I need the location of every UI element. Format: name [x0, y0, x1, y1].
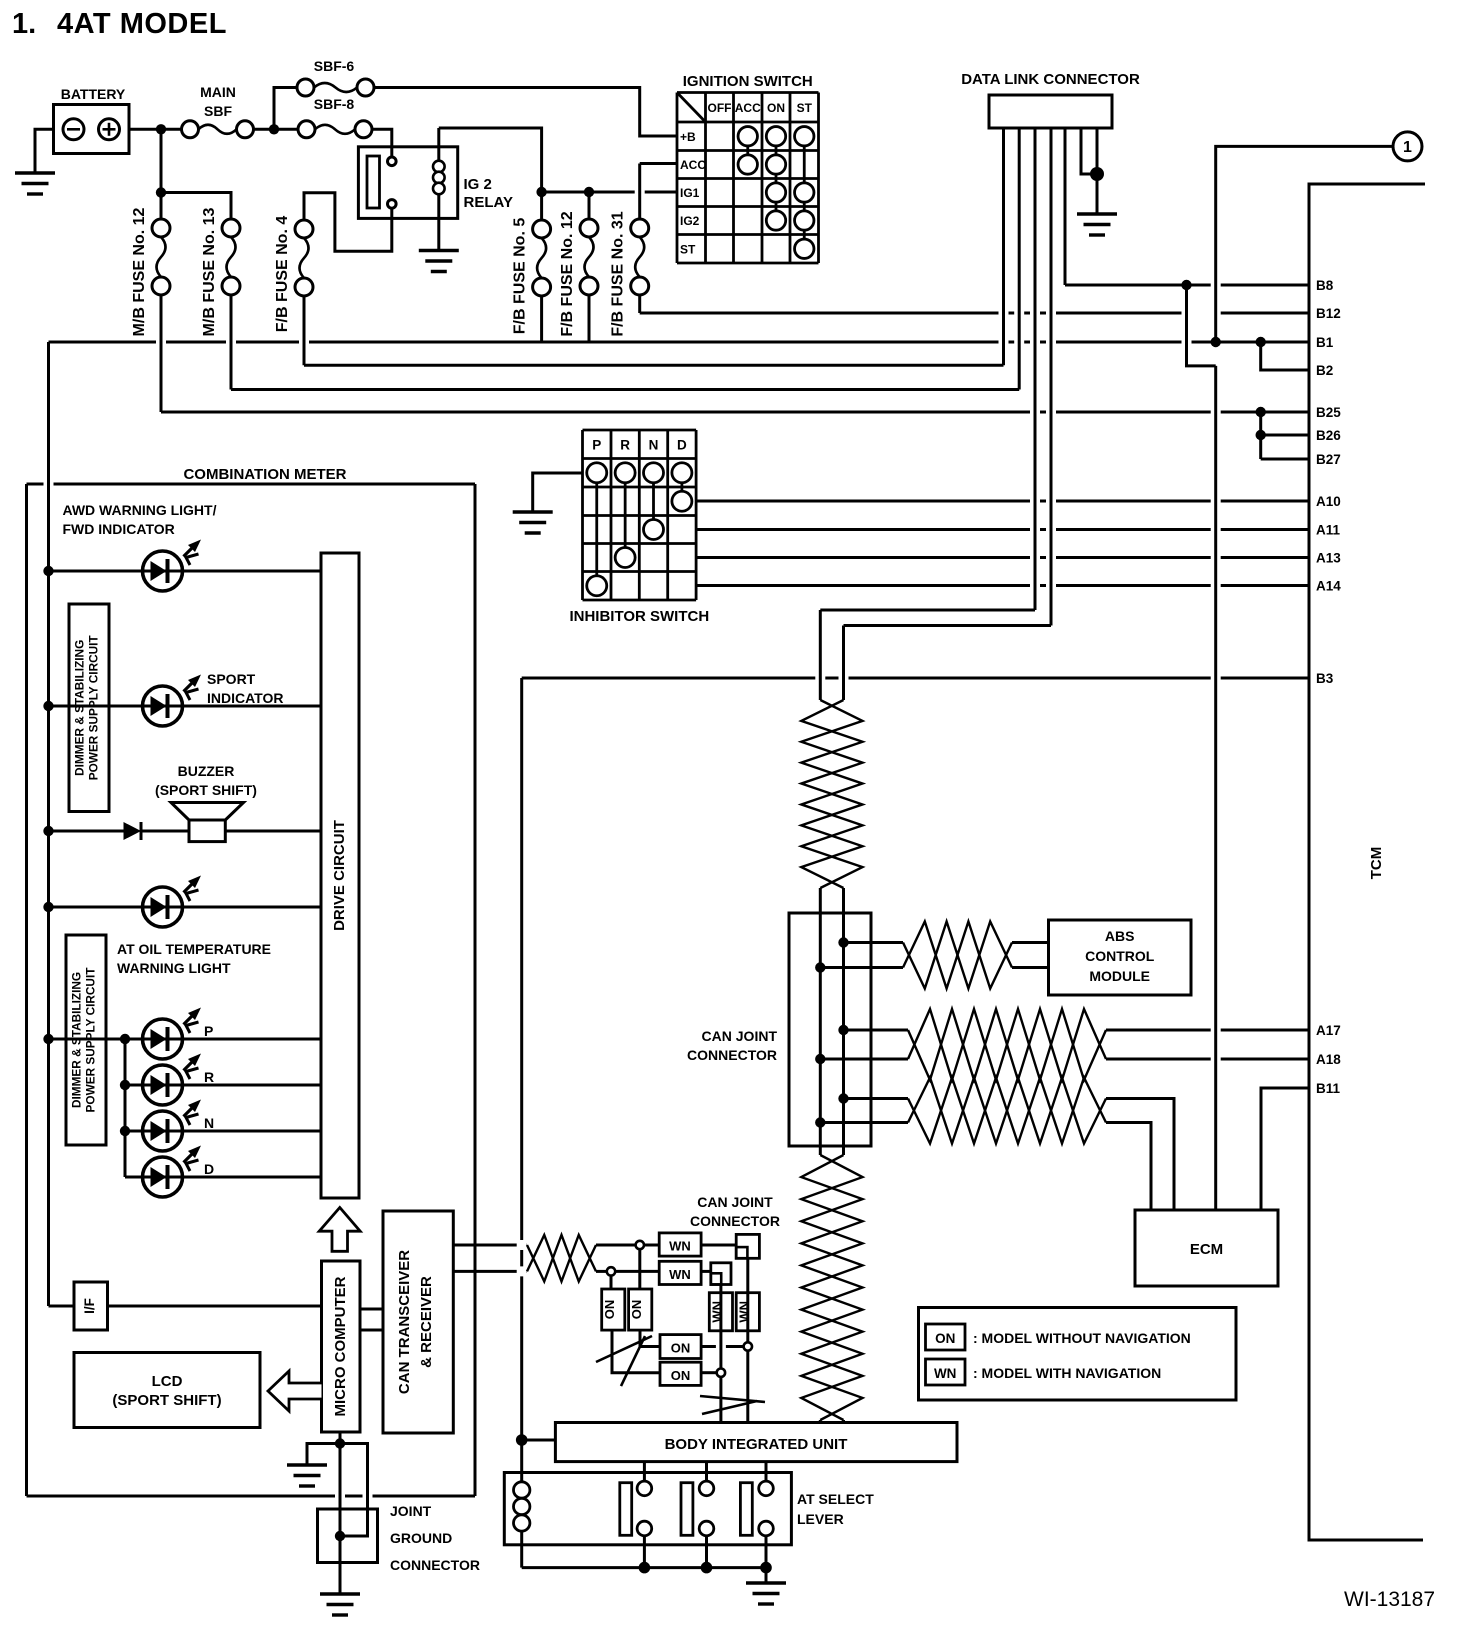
- svg-text:ON: ON: [671, 1341, 691, 1356]
- connector square 2: [711, 1263, 731, 1285]
- wire fuse31 to B12: [638, 295, 641, 313]
- pin B12: [1316, 306, 1341, 321]
- wire B26 B27: [1261, 412, 1309, 459]
- svg-text:1.: 1.: [12, 8, 36, 40]
- twisted pair CAN: [527, 1235, 596, 1281]
- wire bus to MB fuses: [156, 134, 231, 219]
- svg-text:CAN TRANSCEIVER: CAN TRANSCEIVER: [396, 1250, 413, 1394]
- pin B8: [1316, 278, 1334, 293]
- wire B12: [640, 312, 1309, 315]
- svg-text:LCD: LCD: [152, 1373, 183, 1390]
- node WN4 tap: [744, 1342, 752, 1350]
- svg-text:BODY INTEGRATED UNIT: BODY INTEGRATED UNIT: [665, 1436, 848, 1453]
- svg-text:IGNITION SWITCH: IGNITION SWITCH: [683, 73, 813, 90]
- svg-text:A13: A13: [1316, 551, 1341, 566]
- svg-text:M/B FUSE No. 12: M/B FUSE No. 12: [131, 207, 148, 336]
- svg-text:OFF: OFF: [708, 101, 732, 115]
- wire DLC pin5 to B8: [1064, 128, 1067, 285]
- wire WN3 lower: [719, 1377, 722, 1423]
- wire battery to ground: [35, 129, 54, 173]
- wire fuse4 line: [304, 364, 1004, 367]
- ground battery: [15, 173, 55, 194]
- node CAN H tap: [636, 1241, 644, 1249]
- svg-text:B12: B12: [1316, 306, 1341, 321]
- svg-text:SBF: SBF: [204, 103, 232, 119]
- fuse F/B No.5: [512, 218, 551, 335]
- wire SBF-8 to relay: [372, 129, 392, 157]
- svg-text:R: R: [620, 437, 630, 452]
- svg-text:+B: +B: [680, 130, 696, 144]
- node CAN L tap: [607, 1267, 615, 1275]
- svg-text:WN: WN: [709, 1301, 724, 1323]
- svg-text:ON: ON: [671, 1368, 691, 1383]
- wire R row: [183, 1084, 322, 1087]
- pin B11: [1316, 1081, 1341, 1096]
- svg-text:ON: ON: [935, 1331, 955, 1346]
- wire BIU pin1: [643, 1462, 646, 1482]
- node battery feed: [156, 124, 166, 134]
- LED P: [143, 1008, 214, 1060]
- label buzzer: [155, 763, 257, 798]
- svg-text:F/B FUSE No. 4: F/B FUSE No. 4: [274, 216, 291, 333]
- svg-text:A11: A11: [1316, 523, 1341, 538]
- node ABS L: [815, 962, 825, 972]
- legend WN: [926, 1359, 1162, 1385]
- svg-text:ST: ST: [797, 101, 813, 115]
- fuse SBF-6: [297, 58, 374, 96]
- fuse M/B No.12: [131, 207, 170, 336]
- label oil temp: [117, 941, 271, 976]
- svg-text:AT SELECT: AT SELECT: [797, 1491, 874, 1507]
- box WN 4: [736, 1293, 759, 1331]
- svg-text:CAN JOINT: CAN JOINT: [697, 1194, 773, 1210]
- node AT gnd 1: [639, 1562, 651, 1574]
- wire relay out to IG1: [542, 191, 677, 194]
- wire fuse4 down: [303, 296, 306, 365]
- wire supply bus: [49, 342, 75, 1306]
- wire DLC pin7 to ground: [1096, 128, 1099, 214]
- LED N: [143, 1100, 215, 1152]
- LED AWD/FWD: [143, 540, 202, 592]
- arrow up: [319, 1208, 360, 1252]
- svg-text:B25: B25: [1316, 405, 1341, 420]
- svg-text:F/B FUSE No. 5: F/B FUSE No. 5: [512, 218, 529, 335]
- LED sport: [143, 675, 202, 727]
- pin A18: [1316, 1052, 1341, 1067]
- label WI-13187: [1344, 1588, 1435, 1611]
- svg-text:B1: B1: [1316, 335, 1334, 350]
- speaker buzzer: [171, 803, 244, 842]
- svg-text:WN: WN: [934, 1366, 957, 1381]
- drive circuit box: [321, 553, 359, 1198]
- pin A13: [1316, 551, 1341, 566]
- svg-text:D: D: [677, 437, 687, 452]
- svg-text:ABS: ABS: [1105, 928, 1135, 944]
- wire micro to CAN 2: [360, 1329, 383, 1332]
- svg-text:A17: A17: [1316, 1023, 1341, 1038]
- IF box: [74, 1282, 108, 1330]
- node micro ground: [335, 1438, 345, 1448]
- twisted pair ABS: [903, 922, 1012, 989]
- svg-text:N: N: [204, 1115, 214, 1131]
- node A17 tap: [838, 1025, 848, 1035]
- node bus 907: [43, 902, 53, 912]
- svg-text:I/F: I/F: [82, 1298, 97, 1314]
- wire CAN stem left: [819, 610, 822, 1424]
- svg-text:A18: A18: [1316, 1052, 1341, 1067]
- wire B1: [49, 341, 1310, 344]
- node AT gnd 3: [760, 1562, 772, 1574]
- node sub-bus N: [120, 1126, 130, 1136]
- wire ECM pair: [820, 1099, 1174, 1211]
- svg-text:MAIN: MAIN: [200, 84, 236, 100]
- svg-text:AWD WARNING LIGHT/: AWD WARNING LIGHT/: [63, 502, 217, 518]
- svg-text:P: P: [204, 1023, 213, 1039]
- wire BIU tap: [522, 1439, 556, 1442]
- wire main fuse out: [254, 128, 299, 131]
- svg-text:TCM: TCM: [1368, 847, 1385, 880]
- svg-text:BUZZER: BUZZER: [178, 763, 235, 779]
- svg-text:MODULE: MODULE: [1089, 968, 1150, 984]
- CAN transceiver box: [383, 1211, 453, 1433]
- wire SBF-6 to ignition +B: [374, 88, 677, 137]
- svg-text:LEVER: LEVER: [797, 1511, 844, 1527]
- legend ON: [926, 1324, 1191, 1350]
- ignition switch: [677, 73, 819, 263]
- node B8 branch: [1181, 280, 1191, 290]
- wire buzzer row: [49, 830, 322, 833]
- pin A11: [1316, 523, 1341, 538]
- data link connector: [961, 71, 1140, 128]
- node sub-bus R: [120, 1080, 130, 1090]
- twisted pair A17 A18: [908, 1009, 1106, 1080]
- fuse F/B No.31: [610, 211, 649, 336]
- diode buzzer: [124, 822, 142, 840]
- svg-text:FWD INDICATOR: FWD INDICATOR: [63, 521, 175, 537]
- CAN joint connector box: [789, 913, 871, 1146]
- wire micro to CAN 1: [360, 1308, 383, 1311]
- connector square 1: [736, 1234, 759, 1258]
- svg-text:1: 1: [1403, 139, 1412, 156]
- svg-text:B11: B11: [1316, 1081, 1341, 1096]
- wire to SBF-6: [274, 88, 297, 130]
- dimmer box 2: [66, 935, 106, 1145]
- svg-text:P: P: [592, 437, 601, 452]
- wire relay coil feed: [439, 128, 542, 188]
- wire relay contact to fuse4: [304, 193, 392, 252]
- LCD box: [74, 1353, 260, 1428]
- svg-text:DATA LINK CONNECTOR: DATA LINK CONNECTOR: [961, 71, 1140, 88]
- wire ON4 out: [701, 1371, 717, 1374]
- wire AWD row: [49, 570, 322, 573]
- wire D row: [183, 1176, 322, 1179]
- wire CAN L: [453, 1270, 711, 1273]
- TCM bracket: [1309, 184, 1425, 1540]
- wire A18: [820, 1058, 1309, 1061]
- label AWD warning: [63, 502, 217, 537]
- svg-text:CAN JOINT: CAN JOINT: [702, 1028, 778, 1044]
- wire fuse12b to B1: [588, 295, 591, 342]
- wire ON1 branch: [611, 1276, 660, 1373]
- body integrated unit box: [555, 1423, 957, 1462]
- svg-text:IG 2: IG 2: [464, 176, 492, 193]
- label sport indicator: [207, 671, 283, 706]
- ground DLC: [1077, 214, 1117, 235]
- node SBF branch: [269, 124, 279, 134]
- svg-text:(SPORT SHIFT): (SPORT SHIFT): [155, 782, 257, 798]
- title 4AT MODEL: [12, 8, 227, 40]
- wire A11: [696, 528, 1309, 531]
- svg-text:ON: ON: [629, 1300, 644, 1320]
- wire fuse12 to B25: [160, 295, 163, 412]
- fuse M/B No.13: [201, 207, 240, 336]
- switch slash 2: [700, 1396, 765, 1414]
- node ABS H: [838, 937, 848, 947]
- fuse F/B No.4: [274, 216, 313, 333]
- svg-text:D: D: [204, 1161, 214, 1177]
- label TCM: [1368, 847, 1385, 880]
- svg-text:INDICATOR: INDICATOR: [207, 690, 283, 706]
- box ON 3: [660, 1335, 701, 1359]
- svg-text:IG2: IG2: [680, 214, 700, 228]
- wire fuse5 feed: [540, 197, 543, 221]
- wire inhibitor ground: [533, 473, 583, 512]
- LED R: [143, 1054, 215, 1106]
- node BIU tap: [516, 1434, 528, 1446]
- svg-text:MICRO COMPUTER: MICRO COMPUTER: [332, 1276, 349, 1416]
- svg-text:WN: WN: [669, 1267, 691, 1282]
- wire fuse13 line: [231, 388, 1019, 391]
- wire IF to micro: [108, 1305, 322, 1308]
- svg-text:BATTERY: BATTERY: [61, 86, 126, 102]
- svg-text:SBF-6: SBF-6: [314, 58, 355, 74]
- svg-text:R: R: [204, 1069, 214, 1085]
- wire BIU pin2: [705, 1462, 708, 1482]
- wire fuse13 down: [230, 295, 233, 390]
- pin B27: [1316, 452, 1341, 467]
- coil AT select: [514, 1482, 530, 1568]
- node bus 571: [43, 566, 53, 576]
- wire WN4 stem: [746, 1258, 749, 1342]
- node B25 junction: [1256, 407, 1266, 417]
- box WN 2: [659, 1261, 701, 1284]
- svg-text:B3: B3: [1316, 671, 1334, 686]
- svg-text:CONNECTOR: CONNECTOR: [687, 1047, 777, 1063]
- svg-text:& RECEIVER: & RECEIVER: [418, 1276, 435, 1368]
- svg-text:AT OIL TEMPERATURE: AT OIL TEMPERATURE: [117, 941, 271, 957]
- svg-text:WI-13187: WI-13187: [1344, 1588, 1435, 1611]
- inhibitor switch: [569, 430, 709, 625]
- wire P row: [49, 1038, 322, 1041]
- combination meter box: [27, 466, 476, 1496]
- svg-text:RELAY: RELAY: [464, 194, 513, 211]
- wire B11: [1261, 1088, 1309, 1210]
- svg-text:WARNING LIGHT: WARNING LIGHT: [117, 960, 231, 976]
- svg-text:A10: A10: [1316, 494, 1341, 509]
- wire WN4 lower: [746, 1351, 749, 1423]
- wire A14: [696, 584, 1309, 587]
- wire B3: [522, 677, 1309, 680]
- twisted pair lower: [801, 1155, 862, 1420]
- svg-text:M/B FUSE No. 13: M/B FUSE No. 13: [201, 207, 218, 336]
- ground inhibitor: [513, 512, 553, 533]
- wire sport row: [49, 705, 322, 708]
- box ON 2: [629, 1289, 652, 1330]
- wire CAN H: [453, 1244, 736, 1247]
- svg-text:: MODEL WITHOUT NAVIGATION: : MODEL WITHOUT NAVIGATION: [973, 1330, 1191, 1346]
- svg-text:IG1: IG1: [680, 186, 700, 200]
- AT select lever box: [504, 1473, 874, 1545]
- joint ground connector: [318, 1503, 480, 1573]
- svg-text:N: N: [649, 437, 659, 452]
- ECM box: [1135, 1210, 1278, 1286]
- svg-text:SPORT: SPORT: [207, 671, 256, 687]
- wire DLC pin1: [1002, 128, 1005, 365]
- node DLC ground join: [1090, 167, 1104, 181]
- svg-text:B27: B27: [1316, 452, 1341, 467]
- switch slash 1: [596, 1336, 652, 1386]
- wire ON3 out: [701, 1345, 744, 1348]
- svg-text:WN: WN: [669, 1239, 691, 1254]
- circled 1: [1216, 132, 1422, 342]
- wire left bus lower: [520, 678, 523, 1484]
- wire B8: [1065, 284, 1309, 287]
- svg-text:JOINT: JOINT: [390, 1503, 432, 1519]
- svg-text:ON: ON: [602, 1300, 617, 1320]
- node relay out: [536, 187, 546, 197]
- wire ACC to fuse31: [640, 164, 677, 220]
- wire ON2 branch: [640, 1249, 660, 1346]
- svg-text:CONTROL: CONTROL: [1085, 948, 1155, 964]
- ground joint connector: [320, 1594, 360, 1615]
- contact AT 1: [620, 1481, 652, 1568]
- wire A17: [844, 1029, 1310, 1032]
- LED D: [143, 1146, 215, 1198]
- svg-text:B26: B26: [1316, 428, 1341, 443]
- wire AT ground drop: [765, 1568, 768, 1583]
- svg-text:ACC: ACC: [680, 158, 706, 172]
- dimmer box 1: [69, 604, 109, 812]
- svg-text:4AT MODEL: 4AT MODEL: [57, 8, 227, 40]
- svg-text:COMBINATION METER: COMBINATION METER: [183, 466, 346, 483]
- wire A13: [696, 556, 1309, 559]
- box ON 1: [602, 1289, 625, 1330]
- node ECM H: [838, 1093, 848, 1103]
- ground AT select: [746, 1583, 786, 1604]
- svg-text:: MODEL WITH NAVIGATION: : MODEL WITH NAVIGATION: [973, 1365, 1161, 1381]
- label CAN joint connector 1: [687, 1028, 777, 1063]
- svg-text:GROUND: GROUND: [390, 1530, 452, 1546]
- ground micro: [287, 1465, 327, 1486]
- wire DLC pin6: [1081, 128, 1093, 174]
- wire B2: [1261, 342, 1309, 370]
- contact AT 2: [681, 1481, 714, 1568]
- wire DLC pin4: [844, 128, 1052, 626]
- node A18 tap: [815, 1054, 825, 1064]
- svg-text:WN: WN: [736, 1301, 751, 1323]
- fuse SBF-8: [298, 96, 372, 138]
- wire oil temp row: [49, 906, 322, 909]
- svg-text:F/B FUSE No. 31: F/B FUSE No. 31: [610, 211, 627, 336]
- node WN3 tap: [717, 1369, 725, 1377]
- arrow left: [268, 1371, 322, 1411]
- svg-text:ACC: ACC: [735, 101, 761, 115]
- node bus 1039: [43, 1034, 53, 1044]
- node ECM L: [815, 1117, 825, 1127]
- fuse F/B No.12: [559, 211, 598, 336]
- wire ABS pair: [820, 943, 1048, 968]
- svg-text:ST: ST: [680, 242, 696, 256]
- relay IG2: [358, 128, 513, 251]
- twisted pair ECM: [908, 1078, 1106, 1144]
- wire DLC pin3: [820, 128, 1035, 610]
- svg-text:(SPORT SHIFT): (SPORT SHIFT): [112, 1392, 221, 1409]
- box WN 1: [659, 1233, 701, 1256]
- twisted pair upper: [801, 700, 862, 888]
- svg-text:A14: A14: [1316, 579, 1341, 594]
- node AT gnd 2: [701, 1562, 713, 1574]
- wire WN3 stem: [719, 1285, 722, 1369]
- svg-text:CONNECTOR: CONNECTOR: [690, 1213, 780, 1229]
- ABS control module box: [1049, 920, 1192, 995]
- node B1 junction: [1211, 337, 1221, 347]
- svg-text:B8: B8: [1316, 278, 1334, 293]
- micro computer box: [322, 1261, 361, 1432]
- box ON 4: [660, 1362, 701, 1385]
- node B1 to B2: [1256, 337, 1266, 347]
- pin A10: [1316, 494, 1341, 509]
- wire CAN stem right: [842, 626, 845, 1425]
- node sub-bus P: [120, 1034, 130, 1044]
- pin B3: [1316, 671, 1334, 686]
- wire N row: [183, 1130, 322, 1133]
- pin B2: [1316, 363, 1333, 378]
- wire micro ground stem: [307, 1432, 368, 1594]
- wire fuse12b feed: [588, 197, 591, 220]
- wire DLC pin2: [1018, 128, 1021, 390]
- wire B25: [161, 411, 1309, 414]
- box WN 3: [709, 1293, 732, 1331]
- node B26 junction: [1256, 430, 1266, 440]
- wire BIU pin3: [765, 1462, 768, 1482]
- wire PRND sub-bus: [125, 1039, 143, 1177]
- node bus 831: [43, 826, 53, 836]
- svg-text:DIMMER & STABILIZING: DIMMER & STABILIZING: [73, 640, 87, 776]
- svg-text:F/B FUSE No. 12: F/B FUSE No. 12: [559, 211, 576, 336]
- wire fuse5 to B1: [540, 296, 543, 342]
- pin B25: [1316, 405, 1341, 420]
- ground relay: [419, 251, 459, 272]
- wire A10: [696, 500, 1309, 503]
- node bus 706: [43, 701, 53, 711]
- svg-text:INHIBITOR SWITCH: INHIBITOR SWITCH: [569, 608, 709, 625]
- pin B1: [1316, 335, 1334, 350]
- svg-text:B2: B2: [1316, 363, 1333, 378]
- battery: [54, 86, 130, 154]
- pin A17: [1316, 1023, 1341, 1038]
- svg-text:ON: ON: [767, 101, 785, 115]
- label CAN joint connector 2: [690, 1194, 780, 1229]
- svg-text:ECM: ECM: [1190, 1241, 1223, 1258]
- wire battery to main fuse: [129, 128, 182, 131]
- pin B26: [1316, 428, 1341, 443]
- legend box: [919, 1308, 1237, 1401]
- svg-text:CONNECTOR: CONNECTOR: [390, 1557, 480, 1573]
- svg-text:DRIVE CIRCUIT: DRIVE CIRCUIT: [331, 820, 348, 931]
- wire B8 branch to ECM: [1187, 285, 1216, 1210]
- pin A14: [1316, 579, 1341, 594]
- contact AT 3: [740, 1481, 773, 1568]
